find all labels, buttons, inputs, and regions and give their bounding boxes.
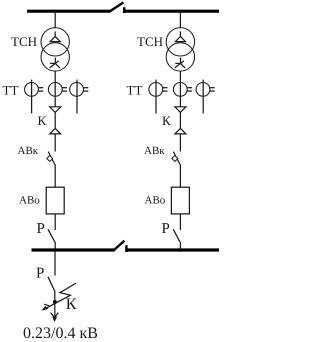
svg-text:К: К xyxy=(66,296,77,313)
current transformer TT middle xyxy=(173,83,192,97)
label ABo xyxy=(145,195,166,207)
label ABo xyxy=(19,195,40,207)
svg-text:Р: Р xyxy=(37,221,45,237)
breaker box ABo xyxy=(46,187,64,214)
label K (short-circuit point) xyxy=(66,296,77,313)
bus-section switch blade (top bus) xyxy=(109,2,124,12)
wire: box ABo to disconnector P xyxy=(54,214,56,230)
label TT xyxy=(127,83,143,98)
svg-text:ТТ: ТТ xyxy=(3,83,19,98)
label 0.23/0.4 kV xyxy=(23,325,98,342)
svg-text:ТСН: ТСН xyxy=(11,34,37,49)
fixed contact tick (bottom bus) xyxy=(125,245,127,252)
wire: disconnector to bottom bus xyxy=(179,242,181,252)
label K (connector) xyxy=(38,113,47,128)
transformer TCH (station service transformer) xyxy=(41,28,69,72)
svg-text:Р: Р xyxy=(162,221,170,237)
short-circuit lightning arrow to point K xyxy=(42,283,77,311)
junction node (short-circuit point) xyxy=(53,300,57,304)
label P (disconnector) xyxy=(162,221,170,237)
connector K socket (triangle up) xyxy=(50,128,61,134)
label TCH xyxy=(11,34,37,49)
wire: transformer to current transformers xyxy=(54,71,56,107)
current transformer TT right xyxy=(196,80,215,114)
bus: top busbar right section xyxy=(124,10,219,13)
wire: connector to breaker ABk xyxy=(54,134,56,152)
label P (disconnector) xyxy=(37,221,45,237)
wire: breaker to fuse box ABo xyxy=(179,164,181,187)
wire: bus drop to transformer xyxy=(54,11,56,28)
wire: breaker to fuse box ABo xyxy=(54,164,56,187)
svg-text:Р: Р xyxy=(36,266,44,282)
circuit breaker ABk xyxy=(47,152,55,165)
disconnector P blade (feeder) xyxy=(48,277,55,291)
wire: bus drop to transformer xyxy=(179,11,181,28)
svg-text:К: К xyxy=(162,113,171,128)
breaker box ABo xyxy=(171,187,189,214)
label TT xyxy=(3,83,19,98)
svg-text:АВо: АВо xyxy=(145,195,166,207)
svg-text:К: К xyxy=(38,113,47,128)
svg-text:0.23/0.4 кВ: 0.23/0.4 кВ xyxy=(23,325,98,342)
wire: feeder from bottom bus xyxy=(54,251,56,276)
svg-text:АВк: АВк xyxy=(144,145,165,157)
wire: connector to breaker ABk xyxy=(179,134,181,152)
wire: transformer to current transformers xyxy=(179,71,181,107)
fixed contact tick (top bus) xyxy=(123,7,125,13)
svg-text:ТСН: ТСН xyxy=(137,34,163,49)
bus: bottom busbar left section xyxy=(32,248,115,251)
label ABk xyxy=(18,145,39,157)
wire: between connector halves xyxy=(179,112,181,128)
wire: between connector halves xyxy=(54,112,56,128)
svg-text:ТТ: ТТ xyxy=(127,83,143,98)
label ABk xyxy=(144,145,165,157)
label P (feeder disconnector) xyxy=(36,266,44,282)
connector K plug (triangle down) xyxy=(175,107,186,113)
wire: feeder to load arrow xyxy=(54,291,56,319)
connector K socket (triangle up) xyxy=(175,128,186,134)
load arrow (down, double head) xyxy=(51,313,59,322)
wire: box ABo to disconnector P xyxy=(179,214,181,230)
current transformer TT left xyxy=(25,80,44,114)
transformer TCH (station service transformer) xyxy=(166,28,194,72)
circuit breaker ABk xyxy=(172,152,180,165)
current transformer TT right xyxy=(70,80,89,114)
label TCH xyxy=(137,34,163,49)
bus: top busbar left section xyxy=(27,10,110,13)
disconnector P blade xyxy=(173,229,180,242)
current transformer TT left xyxy=(149,80,168,114)
connector K plug (triangle down) xyxy=(50,107,61,113)
svg-text:АВк: АВк xyxy=(18,145,39,157)
current transformer TT middle xyxy=(48,83,67,97)
disconnector P blade xyxy=(48,229,55,242)
svg-text:АВо: АВо xyxy=(19,195,40,207)
bus: bottom busbar right section xyxy=(126,248,219,251)
wire: disconnector to bottom bus xyxy=(54,242,56,252)
label K (connector) xyxy=(162,113,171,128)
bus-section switch blade (bottom bus) xyxy=(114,241,125,250)
